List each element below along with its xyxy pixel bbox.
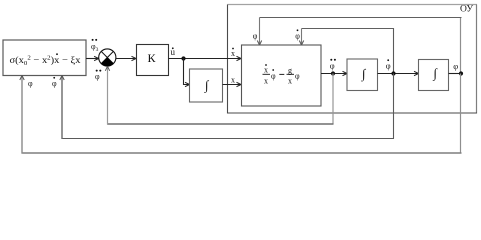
svg-text:φ: φ [52, 79, 57, 88]
svg-text:φ: φ [386, 60, 391, 70]
label phi''_3 (command input) [91, 39, 99, 53]
integrator I2 [347, 59, 378, 91]
wire I3 output to node phi [449, 73, 462, 75]
feedback wire phi'' to summer (bottom) [332, 74, 334, 125]
plant dynamics block: (x'/x)phi' - (g/x)phi [242, 45, 322, 106]
label phi-dot (F1 input) [52, 77, 57, 88]
svg-text:x: x [231, 76, 235, 85]
wire summer to K [116, 58, 135, 60]
summing junction circle [99, 49, 116, 66]
svg-text:φ: φ [271, 72, 276, 81]
svg-text:φ: φ [330, 61, 335, 71]
svg-text:φ: φ [453, 61, 458, 71]
block F1: nonlinear function sigma(x0^2 - x^2)x' - xi*x [3, 40, 86, 76]
node: u-dot branch [181, 56, 185, 60]
integrator I1 [190, 69, 223, 102]
feedback wire phi-dot to F1 (bottom) [393, 74, 395, 139]
svg-text:x: x [231, 49, 235, 58]
label phi'' [330, 59, 336, 71]
label phi-dot (top input) [295, 29, 300, 40]
node phi [459, 71, 463, 75]
wire plant output phi'' to integrator I2 [321, 73, 346, 75]
svg-text:φ: φ [28, 79, 33, 88]
feedback wire phi to F1 (bottom) [460, 74, 462, 154]
svg-text:x: x [264, 66, 268, 75]
label phi'' (feedback into summer) [95, 70, 101, 81]
svg-text:g: g [288, 66, 292, 75]
svg-text:φ: φ [95, 72, 100, 81]
minus [279, 73, 284, 75]
wire K output to plant input x-dot [169, 58, 241, 60]
label x-dot (plant input) [231, 48, 235, 58]
top feedback wire phi [460, 18, 462, 74]
svg-text:φ: φ [295, 32, 300, 41]
wire I1 output to plant input x [223, 84, 241, 86]
outer box OU (controlled object) [228, 4, 478, 6]
svg-text:К: К [148, 51, 157, 65]
block K (gain) [137, 45, 169, 76]
node phi'' [331, 71, 335, 75]
wire node down to integrator I1 [184, 59, 189, 85]
svg-text:x: x [288, 77, 292, 86]
top feedback wire phi-dot [393, 28, 395, 74]
wire I2 output to integrator I3 [378, 73, 418, 75]
svg-text:ОУ: ОУ [460, 5, 473, 15]
integrator I3 [419, 60, 449, 91]
wire F1 output to summing junction [86, 58, 98, 60]
svg-text:σ(x02 − x2)x − ξx: σ(x02 − x2)x − ξx [10, 55, 81, 68]
node phi-dot [391, 71, 395, 75]
label equation in block F1 [10, 53, 81, 67]
svg-text:x: x [264, 77, 268, 86]
label u-dot [171, 47, 176, 57]
svg-text:φ: φ [295, 72, 300, 81]
svg-text:φ: φ [253, 32, 258, 41]
label phi-dot [386, 59, 391, 70]
